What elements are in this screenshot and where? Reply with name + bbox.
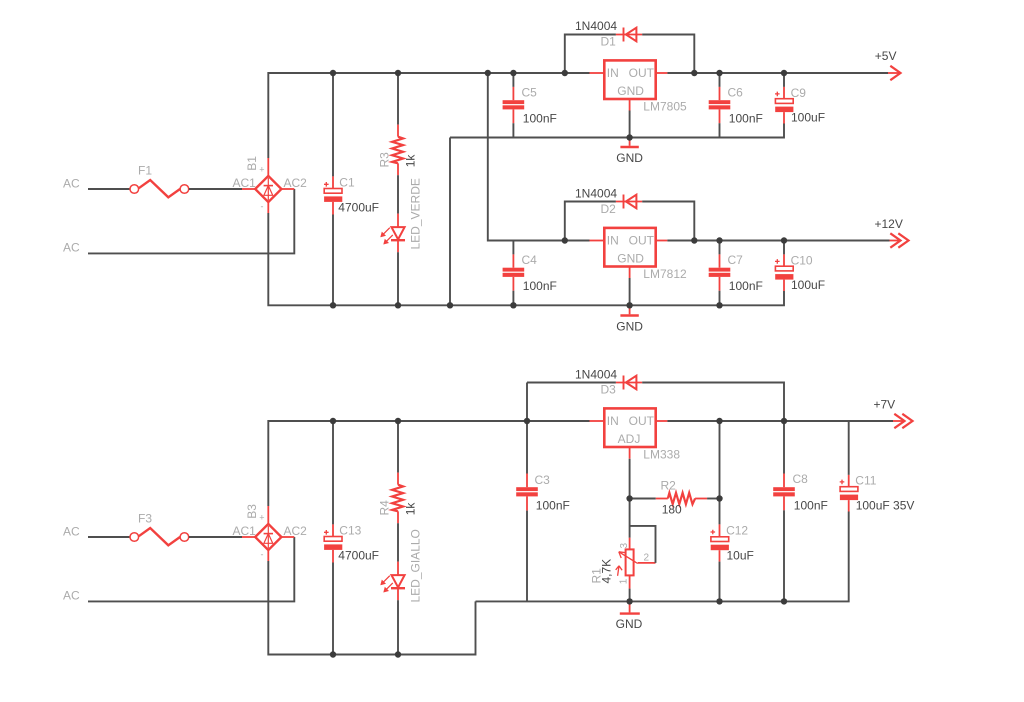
- capacitor C12 (polarized 10uF): [711, 524, 729, 561]
- junction OUT rail / C9: [781, 70, 787, 76]
- svg-text:B3: B3: [245, 504, 259, 519]
- svg-text:10uF: 10uF: [727, 549, 754, 563]
- wire bridge B3 minus down along lowest rail up to LM338 ground rail: [268, 561, 475, 655]
- svg-text:R4: R4: [378, 500, 392, 516]
- wire LM338 IN rail to capacitor C13: [332, 421, 334, 524]
- ground symbol GND (LM7805): [620, 138, 638, 148]
- junction lowest rail / LED_GIALLO: [395, 651, 401, 657]
- svg-text:1k: 1k: [404, 502, 418, 516]
- wire capacitor C3 to LM338 ground rail: [526, 511, 528, 602]
- fuse F3: [130, 528, 189, 545]
- wire top rail to capacitor C1: [332, 73, 334, 176]
- svg-text:+7V: +7V: [874, 398, 896, 412]
- svg-text:100uF: 100uF: [791, 111, 825, 125]
- junction LM7812 OUT rail / D2 right: [691, 237, 697, 243]
- junction LM338 ground rail / R1 GND: [626, 598, 632, 604]
- wire capacitor C5 to LM7805 ground rail: [512, 123, 514, 137]
- svg-text:C10: C10: [791, 253, 813, 267]
- svg-text:AC: AC: [63, 241, 80, 255]
- svg-text:100nF: 100nF: [729, 112, 763, 126]
- wire top rail to capacitor C5: [512, 73, 514, 87]
- svg-text:1N4004: 1N4004: [575, 186, 617, 200]
- svg-text:100nF: 100nF: [794, 499, 828, 513]
- op-amp regulator U2 LM7812: [590, 228, 668, 278]
- svg-text:+: +: [259, 164, 264, 174]
- resistor R4: [392, 473, 403, 524]
- svg-text:C9: C9: [791, 86, 807, 100]
- junction bottom ground rail / LM7805 ground feed: [447, 302, 453, 308]
- svg-text:-: -: [261, 202, 264, 212]
- fuse F1: [130, 180, 189, 197]
- svg-text:180: 180: [662, 503, 682, 517]
- bridge rectifier B3: [242, 506, 294, 561]
- wire LM338 OUT rail down through R2 node to capacitor C12: [719, 421, 721, 524]
- junction LM338 IN rail / D3 and C3: [524, 418, 530, 424]
- svg-text:1k: 1k: [404, 154, 418, 168]
- supply arrow +5V: [888, 66, 901, 80]
- junction LM7812 IN rail / D2 left: [562, 237, 568, 243]
- svg-text:LM338: LM338: [643, 448, 680, 462]
- wire ground feed from LM7805 ground rail down to bottom rail: [449, 138, 451, 306]
- diode D1 (1N4004): [616, 28, 642, 42]
- svg-text:OUT: OUT: [629, 233, 655, 247]
- svg-text:ADJ: ADJ: [618, 432, 641, 446]
- capacitor C9 (polarized 100uF): [775, 87, 793, 124]
- svg-text:+12V: +12V: [875, 217, 903, 231]
- wire fuse F1 to bridge B1 AC1 pin: [189, 188, 242, 190]
- wire D3 top run left segment: [527, 382, 616, 384]
- junction bottom ground rail / C1: [330, 302, 336, 308]
- wire ADJ node to resistor R2: [630, 498, 656, 500]
- wire bridge B1 AC2 pin return to lower AC: [88, 189, 294, 253]
- svg-text:2: 2: [644, 553, 650, 564]
- svg-text:+5V: +5V: [875, 49, 897, 63]
- wire top rail to capacitor C6: [719, 73, 721, 87]
- wire R1 wiper loop up to ADJ wire: [630, 526, 656, 563]
- capacitor C5 (100nF): [503, 87, 525, 123]
- svg-text:LED_GIALLO: LED_GIALLO: [409, 529, 423, 602]
- svg-text:4700uF: 4700uF: [338, 200, 379, 214]
- wire LM338 ground rail (to C11 corner): [476, 512, 849, 602]
- svg-text:GND: GND: [616, 151, 643, 165]
- wire D1 right branch to OUT rail: [642, 35, 694, 74]
- wire D2 right branch to LM7812 OUT rail: [642, 202, 694, 241]
- junction LM338 IN rail / C13: [330, 418, 336, 424]
- junction LM338 ground rail / C8: [781, 598, 787, 604]
- supply arrow +7V: [893, 414, 913, 428]
- wire top rail to capacitor C9: [783, 73, 785, 87]
- op-amp regulator U1 LM7805: [590, 60, 668, 110]
- wire LM7812 OUT rail to capacitor C7: [719, 241, 721, 255]
- junction lowest rail / C13: [330, 651, 336, 657]
- svg-text:D2: D2: [601, 202, 617, 216]
- wire LM7805 ground rail (to C9 corner): [450, 124, 784, 138]
- svg-text:LM7805: LM7805: [643, 100, 687, 114]
- junction LM7812 OUT rail / C10: [781, 237, 787, 243]
- wire LM338 ADJ pin down to trimmer R1: [629, 459, 631, 538]
- wire LED_VERDE cathode to bottom ground rail: [397, 252, 399, 305]
- wire LM7812 OUT rail to +12V arrow: [667, 240, 889, 242]
- svg-text:1N4004: 1N4004: [575, 19, 617, 33]
- svg-text:C7: C7: [728, 253, 744, 267]
- svg-text:C8: C8: [793, 472, 809, 486]
- svg-text:100uF: 100uF: [791, 278, 825, 292]
- svg-text:100nF: 100nF: [729, 279, 763, 293]
- supply arrow +12V: [890, 233, 909, 247]
- capacitor C10 (polarized 100uF): [775, 254, 793, 291]
- svg-text:AC1: AC1: [233, 176, 257, 190]
- svg-text:4700uF: 4700uF: [338, 548, 379, 562]
- junction bottom ground rail / LED_VERDE: [395, 302, 401, 308]
- svg-text:AC2: AC2: [284, 524, 308, 538]
- junction LM7812 OUT rail / C7: [716, 237, 722, 243]
- LED LED_VERDE: [380, 214, 405, 253]
- svg-text:C1: C1: [339, 176, 355, 190]
- svg-text:AC: AC: [63, 524, 80, 538]
- svg-text:OUT: OUT: [629, 66, 655, 80]
- svg-text:C4: C4: [522, 253, 538, 267]
- wire bridge B1 minus down to bottom ground rail, rail to C10: [268, 213, 784, 305]
- capacitor C13 (polarized 4700uF): [324, 524, 342, 562]
- svg-text:IN: IN: [607, 233, 619, 247]
- wire D3 left branch down through IN rail to capacitor C3: [526, 383, 528, 474]
- junction LM338 ground rail / C12: [716, 598, 722, 604]
- svg-text:1N4004: 1N4004: [575, 367, 617, 381]
- svg-text:AC1: AC1: [233, 524, 257, 538]
- svg-text:OUT: OUT: [629, 414, 655, 428]
- svg-text:IN: IN: [607, 66, 619, 80]
- junction ADJ node / R2: [626, 495, 632, 501]
- svg-text:R3: R3: [378, 152, 392, 168]
- wire capacitor C1 to bottom ground rail: [332, 215, 334, 306]
- diode D3 (1N4004): [616, 376, 642, 390]
- junction bottom ground rail / C7: [716, 302, 722, 308]
- wire capacitor C6 to LM7805 ground rail: [719, 123, 721, 137]
- junction bottom ground rail / LM7812 GND: [626, 302, 632, 308]
- wire top rail to resistor R3: [397, 73, 399, 125]
- svg-text:LED_VERDE: LED_VERDE: [409, 178, 423, 249]
- svg-text:AC2: AC2: [284, 176, 308, 190]
- svg-text:-: -: [261, 550, 264, 560]
- svg-text:+: +: [259, 512, 264, 522]
- junction top rail / C5: [510, 70, 516, 76]
- wire resistor R3 to LED_VERDE: [397, 175, 399, 213]
- svg-text:AC: AC: [63, 176, 80, 190]
- ground symbol GND (LM338): [620, 601, 640, 613]
- svg-text:C6: C6: [728, 85, 744, 99]
- svg-text:3: 3: [619, 543, 630, 549]
- svg-text:D3: D3: [601, 383, 617, 397]
- resistor R3: [392, 125, 403, 176]
- diode D2 (1N4004): [616, 195, 642, 209]
- svg-text:C13: C13: [339, 524, 361, 538]
- svg-text:100nF: 100nF: [523, 112, 557, 126]
- svg-text:100nF: 100nF: [523, 279, 557, 293]
- svg-text:GND: GND: [616, 617, 643, 631]
- svg-text:4,7K: 4,7K: [600, 559, 614, 584]
- wire capacitor C12 to LM338 ground rail: [719, 562, 721, 602]
- svg-text:LM7812: LM7812: [643, 267, 687, 281]
- junction top rail / D1 left: [562, 70, 568, 76]
- wire capacitor C8 to LM338 ground rail: [783, 510, 785, 601]
- wire capacitor C13 to lowest rail: [332, 563, 334, 655]
- op-amp regulator U3 LM338: [590, 408, 668, 458]
- wire D2 left branch from LM7812 IN rail: [565, 202, 616, 241]
- wire top rail feed down to LM7812 IN rail: [488, 73, 590, 241]
- junction top rail / R3: [395, 70, 401, 76]
- ground symbol GND (LM7812): [620, 305, 638, 315]
- svg-text:IN: IN: [607, 414, 619, 428]
- junction R2 / C12: [716, 495, 722, 501]
- wire LED_GIALLO cathode to lowest rail: [397, 600, 399, 654]
- LED LED_GIALLO: [380, 562, 405, 601]
- svg-text:GND: GND: [616, 320, 643, 334]
- wire LM338 OUT rail to +7V arrow: [667, 420, 893, 422]
- capacitor C4 (100nF): [503, 254, 525, 290]
- junction top rail / LM7812 feed: [485, 70, 491, 76]
- capacitor C11 (polarized 100uF 35V): [840, 475, 858, 512]
- capacitor C7 (100nF): [709, 254, 731, 290]
- svg-text:F3: F3: [138, 511, 152, 525]
- trimmer R1 (4,7K): [616, 538, 656, 589]
- junction LM338 OUT rail / R2 C12 branch: [716, 418, 722, 424]
- wire trimmer R1 pin1 to LM338 ground rail: [629, 589, 631, 602]
- wire resistor R4 to LED_GIALLO: [397, 523, 399, 561]
- svg-text:100uF 35V: 100uF 35V: [856, 499, 915, 513]
- capacitor C3 (100nF): [516, 474, 538, 511]
- wire LM338 IN rail to resistor R4: [397, 421, 399, 473]
- wire LM7805 OUT rail to +5V arrow: [667, 72, 888, 74]
- wire bridge B3 plus up to LM338 IN rail: [268, 421, 589, 506]
- svg-text:F1: F1: [138, 163, 152, 177]
- wire D1 left branch from top rail: [565, 35, 616, 74]
- wire LM7812 OUT rail to capacitor C10: [783, 241, 785, 255]
- svg-text:C11: C11: [855, 473, 876, 487]
- svg-text:AC: AC: [63, 589, 80, 603]
- junction LM338 IN rail / R4: [395, 418, 401, 424]
- wire LM7812 IN rail to capacitor C4: [512, 241, 514, 255]
- wire capacitor C7 to bottom ground rail: [719, 291, 721, 306]
- wire LM338 OUT rail to capacitor C8: [783, 421, 785, 474]
- capacitor C1 (polarized 4700uF): [324, 176, 342, 214]
- svg-text:C3: C3: [535, 473, 551, 487]
- junction top rail / C1: [330, 70, 336, 76]
- svg-text:GND: GND: [617, 252, 644, 266]
- wire resistor R2 to C12 branch: [707, 498, 719, 500]
- wire LM338 OUT rail branch to capacitor C11: [848, 421, 850, 475]
- svg-text:GND: GND: [617, 84, 644, 98]
- wire LM7812 GND pin down to bottom ground rail: [629, 278, 631, 305]
- svg-text:C12: C12: [726, 524, 748, 538]
- capacitor C6 (100nF): [709, 87, 731, 123]
- junction LM338 OUT rail / D3 right and C8: [781, 418, 787, 424]
- wire AC phase1 to fuse F1: [88, 188, 130, 190]
- svg-text:100nF: 100nF: [536, 499, 570, 513]
- svg-text:R2: R2: [661, 478, 677, 492]
- resistor R2: [656, 493, 707, 504]
- bridge rectifier B1: [242, 158, 294, 213]
- wire bridge B1 plus up to top rail, top rail to LM7805 IN: [268, 73, 589, 158]
- junction OUT rail / D1 right: [691, 70, 697, 76]
- wire bridge B3 AC2 pin return to lower AC: [88, 537, 294, 601]
- svg-text:D1: D1: [601, 35, 617, 49]
- wire fuse F3 to bridge B3 AC1 pin: [189, 536, 242, 538]
- svg-text:1: 1: [619, 578, 630, 584]
- wire capacitor C4 to bottom ground rail: [512, 291, 514, 306]
- svg-text:C5: C5: [522, 85, 538, 99]
- junction bottom ground rail / C4: [510, 302, 516, 308]
- capacitor C8 (100nF): [773, 474, 795, 511]
- junction OUT rail / C6: [716, 70, 722, 76]
- wire lower AC phase1 to fuse F3: [88, 536, 130, 538]
- junction LM7805 ground rail / GND: [626, 134, 632, 140]
- svg-text:B1: B1: [245, 156, 259, 171]
- wire D3 right branch to LM338 OUT rail: [642, 383, 784, 422]
- wire LM7805 GND pin down to ground rail: [629, 111, 631, 138]
